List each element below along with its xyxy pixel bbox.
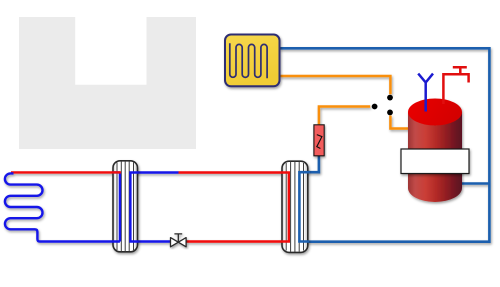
wire: condenser loop top line (blue then red): [130, 173, 137, 242]
radiator / electric boiler (yellow box): [225, 35, 280, 87]
tap / faucet symbol on tank: [443, 67, 468, 104]
wire: condenser inner blue pipe (right exchanger): [298, 172, 301, 241]
hot water tank: [408, 99, 462, 202]
tank top ellipse: [408, 99, 462, 126]
ground-loop collector coil (blue serpentine): [5, 173, 120, 241]
tank label band (white): [401, 149, 469, 174]
house outline (gray U-block): [19, 17, 196, 149]
wire: orange electric line switch to tank heater: [390, 116, 409, 129]
heat exchanger HX1 (left, evaporator): [113, 161, 138, 252]
wire: heating flow pipe (steel blue loop: radiator to tank circuit): [280, 48, 490, 241]
wire: brine red supply (ground loop to evaporator): [11, 171, 120, 173]
node: switch contact left: [372, 104, 378, 110]
wire: orange electric line resistor to switch: [319, 107, 370, 125]
pipes inside HX2: [281, 173, 289, 242]
evaporator cold return (blue down-pipe in left exchanger): [119, 172, 121, 241]
node: switch contact bottom: [387, 110, 393, 116]
pipes inside HX1: [112, 172, 120, 241]
wire: orange electric line radiator to switch: [280, 76, 391, 94]
wire: tank outlet to loop: [461, 182, 490, 185]
node: switch contact top: [387, 95, 393, 101]
wire: condenser loop bottom blue (valve to left exchanger): [130, 240, 170, 242]
switch contact dots: [372, 95, 393, 116]
valve V1 (bottom pipe): [171, 234, 187, 247]
heat exchanger HX2 (right, condenser): [282, 161, 308, 252]
tank body: [408, 112, 462, 202]
resistor R1 (electric heater element): [314, 125, 324, 156]
sensor Y symbol on tank: [418, 74, 433, 112]
